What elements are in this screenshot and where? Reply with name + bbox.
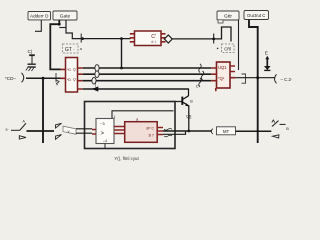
switch V band <box>63 126 76 134</box>
wire R1 to MT box <box>163 130 212 132</box>
wire MT to switch B <box>236 130 272 132</box>
small tab below Gttr <box>218 20 223 23</box>
pins U1 right <box>78 68 83 89</box>
hop mark on bus wire 1 <box>95 65 99 72</box>
wire horizontal to capacitor-box C1 input <box>81 38 130 40</box>
label box Ouctrut C <box>244 11 269 20</box>
switch V arrows <box>56 123 62 128</box>
squiggle hop near U3 pin 1 <box>199 64 202 73</box>
wire from Gttr right down to bracket <box>238 20 240 70</box>
IC U2 box C <box>135 31 162 46</box>
svg-text:Gttr: Gttr <box>224 13 232 19</box>
svg-text:CRl: CRl <box>224 46 231 51</box>
label box Adderr D <box>28 12 51 20</box>
squiggle hop on R1 output wire 1 <box>164 129 172 131</box>
svg-text:⊕ 1: ⊕ 1 <box>151 40 157 44</box>
inner wire from comparator top <box>112 111 174 119</box>
svg-text:Q: Q <box>73 78 76 82</box>
node junction emitter to wire <box>187 130 190 133</box>
bus wire 3 <box>83 80 212 82</box>
pins U2 right <box>161 34 166 42</box>
bus wire 1 <box>83 67 212 69</box>
flip-flop U1 <box>66 58 78 93</box>
wire left vertical bus <box>42 78 44 143</box>
svg-text:Q[]: Q[] <box>186 113 191 118</box>
wire Gate down staircase toward C box <box>66 20 81 39</box>
svg-text:Gate: Gate <box>60 13 71 19</box>
svg-text:dP C: dP C <box>146 127 154 131</box>
antenna E symbol <box>264 51 271 71</box>
pins U4 right / wires to R1 <box>114 127 125 134</box>
pin U3 bottom <box>215 88 217 91</box>
hop mark on bus wire 3 <box>92 77 96 84</box>
svg-text:v: v <box>68 129 70 134</box>
node junction on long wire <box>212 38 215 41</box>
svg-text:k: k <box>57 83 59 87</box>
svg-text:*D: *D <box>67 78 71 82</box>
capacitor C2 with hatched ground <box>26 49 36 71</box>
wire box top extension to transistor base <box>175 101 182 103</box>
node junction on CD wire <box>42 77 45 80</box>
wire lower pin joins main wire <box>163 131 186 134</box>
svg-text:>: > <box>101 131 105 137</box>
flip-flop U3 <box>217 62 231 88</box>
wire vertical from node B down to bus wire 1 <box>121 39 123 68</box>
svg-text:MT: MT <box>223 129 230 134</box>
arrow mark near switch B <box>273 135 279 138</box>
wire U3 output to right <box>236 77 276 79</box>
bus wire 2 <box>83 73 212 75</box>
svg-text:Q: Q <box>73 67 76 71</box>
pins U1 left <box>61 69 66 78</box>
junction tick <box>80 34 82 43</box>
squiggle hop near U3 pin 3 <box>199 78 202 87</box>
node junction right bus at bottom wire <box>257 130 259 132</box>
junction tick on long wire <box>213 34 215 44</box>
wire CD to flip-flop clock <box>26 77 61 79</box>
wire U4 bottom to box edge <box>104 144 106 149</box>
component R1 red block <box>125 122 158 143</box>
svg-text:Ouctrut C: Ouctrut C <box>247 13 265 18</box>
diamond buffer D1 <box>164 35 172 43</box>
label box Gate <box>53 11 77 20</box>
wire 4 to transistor collector <box>83 88 189 90</box>
pins U3 left <box>211 68 216 81</box>
transistor Q1 base bar <box>181 97 183 105</box>
svg-text:~3: ~3 <box>100 121 105 126</box>
hop mark on bus wire 2 <box>95 71 99 78</box>
svg-text:–4: –4 <box>103 139 107 143</box>
wire from diamond up over to CRI area <box>172 27 231 42</box>
node junction on bus wire 1 <box>120 67 123 70</box>
svg-text:*CD–: *CD– <box>5 76 16 81</box>
transistor Q1 emitter with arrow <box>183 102 189 131</box>
svg-text:C|: C| <box>28 49 33 54</box>
bracket mark right of U3 <box>242 74 246 83</box>
svg-text:UQ1: UQ1 <box>218 65 227 70</box>
svg-text:Adderr D: Adderr D <box>30 13 49 18</box>
svg-text:*D: *D <box>67 68 71 72</box>
node junction right bus top <box>256 76 259 79</box>
svg-text:3l 7: 3l 7 <box>148 134 154 138</box>
wire stub below Adderr D <box>35 20 41 32</box>
switch B' <box>6 119 27 139</box>
svg-text:GT ·: GT · <box>65 47 75 53</box>
CRI dashed box <box>217 44 234 53</box>
svg-text:*Q¹: *Q¹ <box>218 76 225 81</box>
pins U4 left <box>92 130 96 135</box>
node junction at thick elbow <box>58 23 61 26</box>
pins U2 left <box>130 34 135 42</box>
switch B lever <box>272 120 289 131</box>
svg-text:a·: a· <box>6 128 9 132</box>
transistor Q1 collector <box>183 89 189 100</box>
comparator U4 <box>96 119 114 144</box>
pins U3 right <box>230 66 236 78</box>
wire short horizontal below Gate <box>59 27 66 29</box>
wire from Ouctrut C down right bus <box>249 20 258 143</box>
squiggle hop near U3 pin 2 <box>201 71 204 80</box>
wires switch V to comparator <box>76 129 92 133</box>
svg-text:C': C' <box>196 84 200 89</box>
label box Gttr <box>217 11 239 20</box>
output hook <box>275 74 277 83</box>
node A junction <box>81 37 84 40</box>
node B junction <box>120 37 123 40</box>
pins R1 right <box>157 128 163 135</box>
svg-text:B: B <box>190 99 193 103</box>
arrow marker on wire 4 <box>92 86 99 91</box>
svg-text:Y(), flml cyut: Y(), flml cyut <box>114 156 139 161</box>
svg-text:E: E <box>265 51 268 56</box>
squiggle hop on R1 output wire 2 <box>164 135 172 137</box>
clock marker U1 <box>56 73 60 84</box>
left cross wire horizontal <box>27 130 55 132</box>
big sub-circuit box <box>85 102 176 149</box>
input hook <box>22 73 24 83</box>
svg-text:– C.2·: – C.2· <box>281 77 293 82</box>
hook before MT <box>211 129 213 134</box>
GT dashed box <box>63 44 82 53</box>
box MT <box>217 127 236 135</box>
wire main left vertical from Gate to flip-flop U1 <box>50 20 60 69</box>
